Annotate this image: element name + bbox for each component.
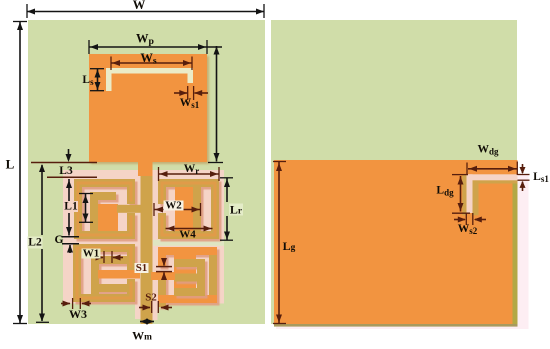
pink meander region: [63, 170, 224, 304]
right board pale pink backing: [276, 175, 529, 329]
ground slot vertical leg (Ldg): [467, 174, 473, 213]
dimension Ls1: [518, 174, 530, 176]
ground slot gold bottom edge: [473, 180, 518, 183]
dimension Wm: [140, 321, 154, 323]
S2 slot pink: [153, 295, 158, 320]
dimension Ldg: [460, 176, 462, 212]
spiral resonator bottom-right: [158, 247, 217, 307]
feed left gap strip: [135, 303, 141, 319]
dimension Ws: [111, 62, 192, 64]
patch slot left leg (Ls): [106, 68, 112, 91]
ground slot gold left flank: [462, 174, 466, 215]
substrate edge strip: [513, 180, 518, 324]
svg-text:W1: W1: [83, 248, 100, 260]
dimension L1 inner: [85, 194, 87, 222]
dimension W2: [154, 209, 201, 211]
left substrate board: [28, 20, 265, 324]
svg-text:S2: S2: [145, 292, 157, 304]
svg-text:L3: L3: [59, 165, 73, 177]
svg-text:L2: L2: [28, 237, 42, 249]
dimension L3: [31, 162, 97, 164]
microstrip feed line upper: [138, 161, 153, 176]
radiating patch: [89, 54, 207, 162]
svg-text:W3: W3: [69, 307, 87, 321]
dimension Ls: [97, 69, 99, 91]
dimension S2: [139, 307, 150, 309]
svg-text:W: W: [133, 0, 146, 12]
dimension W4: [166, 228, 213, 230]
celadon band between right resonators: [153, 240, 224, 246]
ground slot gold right flank: [473, 180, 479, 215]
dimension W: [27, 11, 264, 13]
dimension Wdg: [468, 168, 517, 170]
ground slot horizontal (Wdg): [467, 174, 518, 180]
spiral resonator top-left: [74, 179, 135, 239]
svg-text:W4: W4: [179, 229, 196, 241]
patch slot horizontal arm: [106, 68, 193, 74]
svg-text:S1: S1: [136, 262, 148, 274]
svg-text:W2: W2: [165, 200, 182, 212]
dimension Ws2: [454, 219, 465, 221]
dimension Ws1: [174, 92, 187, 94]
svg-text:Ls1: Ls1: [533, 171, 549, 184]
dimension L2: [41, 165, 43, 235]
dimension S1: [156, 266, 172, 268]
svg-text:L: L: [6, 157, 15, 172]
patch slot right leg (Ws1): [188, 68, 194, 83]
dimension Lr: [226, 178, 228, 202]
svg-text:L1: L1: [64, 201, 78, 213]
svg-text:G: G: [55, 234, 64, 246]
ground bottom edge line: [274, 324, 518, 327]
svg-text:Wm: Wm: [132, 329, 152, 343]
dimension L1: [68, 179, 70, 201]
spiral resonator bottom-left: [73, 244, 135, 302]
microstrip feed line lower: [141, 176, 153, 324]
dimension Wp: [89, 46, 222, 48]
dimension W1: [93, 257, 103, 259]
ground plane: [274, 160, 518, 324]
spiral resonator top-right: [158, 179, 219, 239]
dimension W3: [61, 303, 70, 305]
dimension Lg: [278, 162, 280, 323]
right substrate board: [271, 20, 517, 324]
dimension G: [62, 236, 79, 238]
dimension patch height: [216, 46, 218, 162]
dimension Wr: [159, 173, 220, 175]
dimension L: [19, 22, 21, 323]
